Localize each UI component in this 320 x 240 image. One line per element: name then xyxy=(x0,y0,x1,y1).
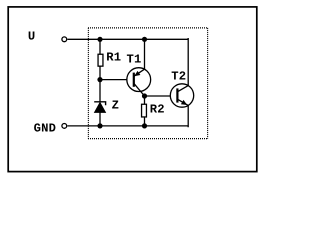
wire: T2 collector up to top rail corner xyxy=(187,39,190,86)
wire: top rail from U terminal to right corner xyxy=(67,38,188,40)
terminal GND xyxy=(62,124,67,129)
svg-text:T2: T2 xyxy=(171,69,186,83)
wire: T2 base wire xyxy=(145,95,177,97)
node: T1 collector / R2 / T2 base junction xyxy=(142,93,147,98)
wire: R2 vertical connections xyxy=(144,96,146,126)
node: top rail / T1 emitter junction xyxy=(142,37,147,42)
svg-text:R1: R1 xyxy=(106,50,121,64)
wire: T1 base wire xyxy=(100,79,133,81)
svg-text:Z: Z xyxy=(112,99,120,113)
label Z xyxy=(112,99,120,113)
label T1 xyxy=(127,53,142,67)
svg-text:GND: GND xyxy=(34,121,57,135)
resistor R2 xyxy=(142,104,147,117)
transistor T2 (NPN) xyxy=(170,84,193,107)
node: zener / bottom rail junction xyxy=(97,123,102,128)
label R1 xyxy=(106,50,121,64)
svg-text:U: U xyxy=(28,30,36,44)
node: R1 bottom / T1 base junction xyxy=(97,77,102,82)
wire: T2 emitter down to bottom rail corner xyxy=(187,105,190,126)
terminal U xyxy=(62,37,67,42)
label U xyxy=(28,30,36,44)
node: top rail / R1 junction xyxy=(97,37,102,42)
label R2 xyxy=(150,102,165,116)
component outline box (dotted) xyxy=(88,28,208,139)
resistor R1 xyxy=(98,54,103,66)
transistor T1 (PNP) xyxy=(127,68,151,96)
label T2 xyxy=(171,69,186,83)
node: R2 bottom / bottom rail junction xyxy=(142,123,147,128)
svg-text:T1: T1 xyxy=(127,53,142,67)
wire: T1 emitter up to top rail xyxy=(144,39,146,69)
wire: bottom rail from GND terminal to right corner xyxy=(67,125,188,127)
label GND xyxy=(34,121,57,135)
svg-text:R2: R2 xyxy=(150,102,165,116)
wire: left vertical branch (R1 / zener) xyxy=(99,39,101,126)
zener diode Z xyxy=(94,102,105,113)
